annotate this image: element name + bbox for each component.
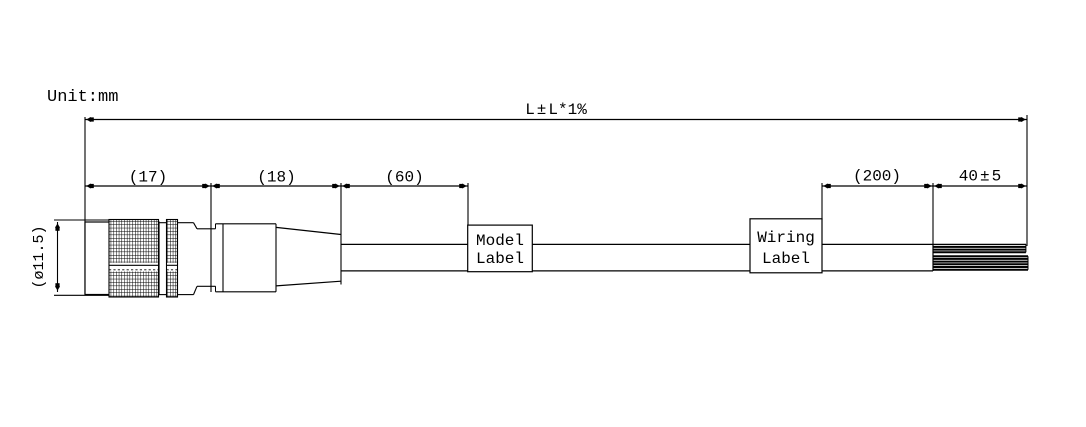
extension line x=1027 (right end) [1026,115,1028,246]
dimension 40±5: right arrow [1018,184,1026,189]
connector rear barrel [216,224,277,292]
dimension (18): left arrow [212,184,220,189]
dimension (18): line [211,185,341,187]
svg-text:(60): (60) [385,169,423,187]
extension line x=933 (200/40 boundary, cable end) [932,183,934,271]
connector strain-relief cone [276,227,341,286]
dimension ø11.5: vertical line [57,222,59,292]
connector rear body section [178,223,198,295]
connector gap between knurls [159,223,167,295]
svg-text:Label: Label [476,250,524,268]
dimension (200): left arrow [823,184,831,189]
dimension (60): right arrow [459,184,467,189]
dimension L overall: right arrow [1018,117,1026,122]
dimension L overall: line [85,119,1027,121]
dimension (60): line [341,185,468,187]
svg-text:(18): (18) [257,169,295,187]
dimension (200): right arrow [924,184,932,189]
dimension ø11.5: top arrow [55,223,60,231]
dimension (17): right arrow [202,184,210,189]
svg-text:Unit:mm: Unit:mm [47,88,118,107]
connector neck [197,229,212,286]
dimension ø11.5: top extension line [54,219,110,221]
stripped wires right ends [1026,244,1028,269]
dimension ø11.5: bottom extension line [54,294,110,296]
extension line x=822 (start of 200) [821,183,823,220]
connector narrow knurled ring [167,220,178,298]
model label box [468,225,533,272]
dimension ø11.5: bottom arrow [55,283,60,291]
svg-text:Label: Label [762,250,810,268]
extension line x=211 (17/18 boundary) [210,183,212,292]
dimension 40±5: line [933,185,1027,187]
extension line x=468 (end of 60) [467,183,469,226]
extension line x=341 (18/60 boundary) [340,183,342,285]
svg-text:40±5: 40±5 [959,168,1001,186]
dimension (60): left arrow [342,184,350,189]
cable end face [932,244,934,271]
dimension (17): line [85,185,211,187]
dimension L overall: left arrow [86,117,94,122]
extension line x=85 (left end / start of 17) [84,117,86,294]
svg-text:Model: Model [476,232,524,250]
svg-text:(17): (17) [129,169,167,187]
dimension 40±5: left arrow [934,184,942,189]
cable bottom edge [341,270,933,272]
connector front shell [85,222,159,295]
svg-text:Wiring: Wiring [757,229,815,247]
dimension (18): right arrow [332,184,340,189]
cable top edge [341,243,1026,245]
svg-text:(ø11.5): (ø11.5) [31,225,48,288]
connector collar step [212,224,216,292]
svg-text:(200): (200) [853,168,901,186]
stripped wires [933,247,1028,270]
connector wide knurled ring [109,220,159,298]
dimension (200): line [822,185,933,187]
svg-text:L±L*1%: L±L*1% [525,101,587,119]
dimension (17): left arrow [86,184,94,189]
wiring label box [750,219,822,273]
